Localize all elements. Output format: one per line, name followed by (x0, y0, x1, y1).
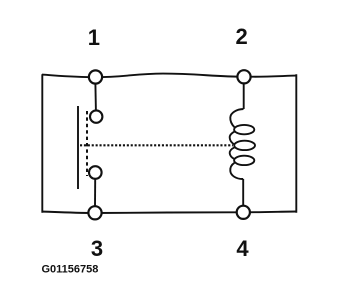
svg-text:4: 4 (236, 236, 249, 261)
terminal pin 4 (237, 206, 250, 219)
coil L1 left arc 1 (230, 132, 235, 145)
switch actuator dashed link (vertical) (86, 111, 88, 176)
switch upper contact circle (90, 110, 102, 122)
wire: bottom border (42, 212, 296, 214)
terminal pin 3 (88, 206, 101, 219)
svg-text:2: 2 (235, 24, 247, 49)
actuator dotted link to coil (horizontal) (80, 144, 233, 146)
wire: lower contact to pin 3 (94, 179, 96, 206)
coil L1 loop 2 (234, 141, 255, 150)
switch armature bar (77, 106, 79, 189)
wire: left border (41, 74, 43, 212)
relay case outline (wire: top border) (42, 74, 296, 78)
switch lower contact circle (89, 166, 102, 179)
wire: pin 2 down to coil (243, 83, 245, 109)
coil L1 left arc 2 (230, 147, 235, 159)
svg-text:1: 1 (88, 25, 100, 50)
coil L1 loop 3 (234, 156, 254, 165)
coil L1 bottom hook (230, 163, 243, 179)
svg-text:G01156758: G01156758 (42, 264, 99, 276)
coil L1 top hook (230, 109, 243, 127)
coil L1 loop 1 (234, 125, 254, 134)
wire: pin 1 to upper contact (94, 84, 97, 111)
svg-text:3: 3 (91, 236, 103, 261)
wire: right border (295, 74, 297, 212)
wire: coil to pin 4 (242, 179, 244, 206)
terminal pin 1 (89, 70, 102, 83)
terminal pin 2 (237, 70, 250, 83)
